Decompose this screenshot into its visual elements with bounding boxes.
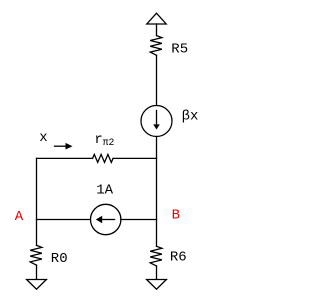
svg-text:A: A [15,209,24,225]
current source I1 (1A) [91,204,121,234]
svg-text:βx: βx [182,109,199,125]
wire node x branch [37,157,93,159]
resistor R0 [30,245,42,265]
svg-text:R0: R0 [51,251,68,267]
svg-text:B: B [172,207,180,223]
svg-text:π2: π2 [103,137,115,148]
ground left [27,280,47,290]
resistor R5 [150,36,162,56]
resistor r_pi2 [93,154,114,162]
current arrow x [55,145,67,147]
wire [156,137,158,247]
power arrow up (VCC) [147,13,166,24]
wire [156,266,158,280]
ground right [147,280,167,290]
wire [113,157,156,159]
svg-text:r: r [94,132,102,148]
wire node A to source [37,219,91,221]
wire [36,158,38,245]
svg-text:R6: R6 [170,250,187,266]
wire [156,55,158,105]
svg-text:R5: R5 [171,42,188,58]
wire source to node B [121,219,157,221]
wire [156,24,158,36]
current source U1 (beta-x) [141,106,172,137]
svg-text:x: x [39,130,47,146]
resistor R6 [150,246,162,266]
wire [36,265,38,279]
svg-text:1A: 1A [96,182,113,198]
